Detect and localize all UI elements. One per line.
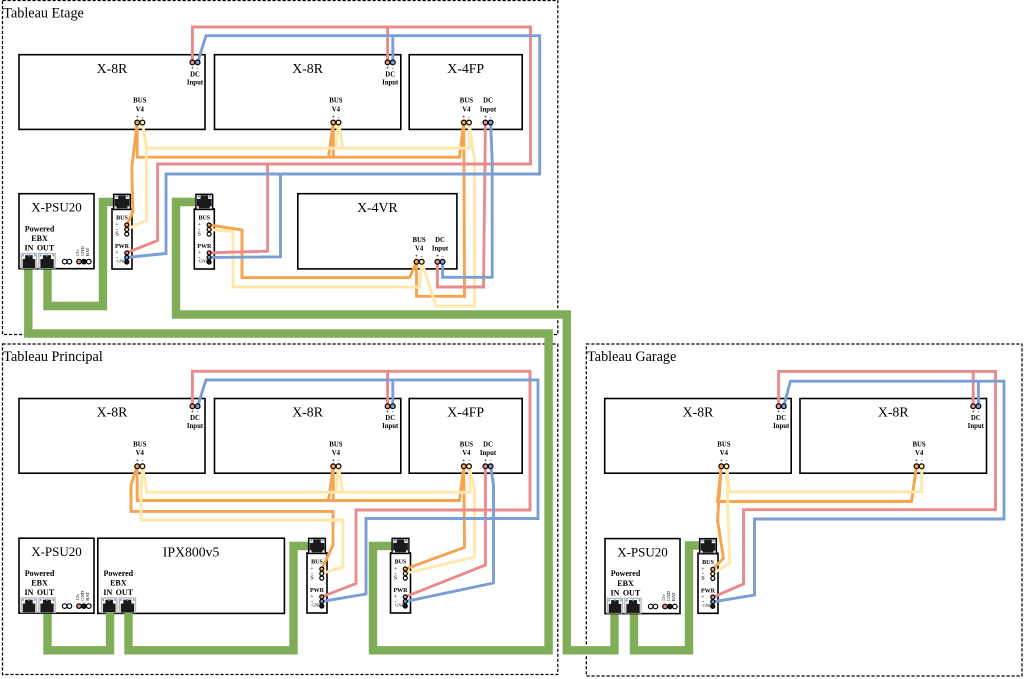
wire GND blue: stub to X-8R#2 Principal DC- bbox=[391, 380, 394, 406]
svg-text:BUS: BUS bbox=[412, 237, 425, 244]
svg-text:+: + bbox=[972, 409, 975, 415]
pins X-8R#2 Principal DC Input ports + - circles bbox=[385, 404, 395, 409]
device X-PSU20 bbox=[19, 538, 94, 613]
wire 12V pink: stub to X-8R#2 Principal DC+ bbox=[386, 371, 389, 406]
svg-text:V4: V4 bbox=[136, 450, 145, 457]
pins X-8R#1 Principal DC Input ports + - circles bbox=[190, 404, 200, 409]
svg-text:X-4FP: X-4FP bbox=[447, 405, 484, 420]
wire 12V pink: Garage module PWR+ riser and top distribution to X-8R DC+ bbox=[713, 371, 996, 597]
svg-text:X-8R: X-8R bbox=[97, 405, 128, 420]
svg-text:BUS: BUS bbox=[311, 560, 323, 566]
wire BUS- yellow: X-8R#1 Principal to module 1 BUS- bbox=[141, 466, 343, 573]
svg-text:V4: V4 bbox=[462, 106, 471, 113]
svg-text:IN: IN bbox=[25, 588, 34, 597]
svg-text:DC: DC bbox=[435, 237, 445, 244]
svg-text:+: + bbox=[462, 458, 465, 464]
wire BUS+ orange: X-8R#1 Principal to module 1 BUS+ bbox=[131, 466, 333, 569]
device X-4VR (Etage) bbox=[298, 194, 457, 269]
svg-text:-: - bbox=[421, 254, 423, 260]
X-8R#2 Etage BUS V4 ports + - bbox=[329, 98, 342, 121]
device X-8R #1 (Principal) bbox=[19, 399, 205, 474]
svg-text:+: + bbox=[386, 409, 389, 415]
EBX coupler module Garage module bbox=[698, 539, 718, 614]
X-8R#1 Etage BUS V4 ports + - bbox=[133, 98, 146, 121]
wire 12V pink: stub to X-8R#2 Etage DC+ bbox=[386, 27, 389, 62]
device X-PSU20 bbox=[605, 539, 680, 614]
svg-text:IPX800v5: IPX800v5 bbox=[163, 544, 220, 559]
wire EBX green: Principal PSU OUT to IPX800v5 IN bbox=[48, 612, 111, 650]
svg-text:X-4FP: X-4FP bbox=[447, 61, 484, 76]
pins X-4FP Principal BUS V4 ports + - circles bbox=[461, 464, 471, 469]
svg-text:OUT: OUT bbox=[116, 588, 134, 597]
X-8R#1 Garage BUS V4 ports + - bbox=[717, 442, 730, 465]
wire BUS+ orange: X-4FP Principal to module 2 BUS+ bbox=[405, 466, 464, 569]
wire BUS- yellow: X-4FP Etage to X-4VR bbox=[422, 123, 475, 307]
svg-text:Input: Input bbox=[187, 79, 204, 86]
wire BUS+ orange: Principal track X-8R#1 / X-8R#2 / X-4FP bbox=[137, 466, 464, 500]
X-8R#1 Garage DC Input ports + - bbox=[773, 409, 790, 430]
pins Garage module BUS +/-/S and PWR +/-/GND circles bbox=[711, 567, 715, 608]
pins X-8R#1 Etage DC Input ports + - circles bbox=[190, 60, 200, 65]
X-8R#2 Garage DC Input ports + - bbox=[968, 409, 985, 430]
svg-text:X-8R: X-8R bbox=[292, 405, 323, 420]
svg-text:+: + bbox=[462, 114, 465, 120]
svg-text:Powered: Powered bbox=[25, 224, 55, 233]
svg-text:+: + bbox=[386, 65, 389, 71]
svg-text:V4: V4 bbox=[136, 106, 145, 113]
pins Principal module 1 BUS +/-/S and PWR +/-/GND circles bbox=[320, 567, 324, 608]
svg-text:DC: DC bbox=[971, 415, 981, 422]
wire BUS- yellow: stub X-8R#2 Principal left leg bbox=[336, 466, 339, 492]
EBX coupler module Principal module 1 bbox=[307, 538, 327, 613]
svg-text:IN: IN bbox=[611, 588, 620, 597]
wire BUS+ orange: stub X-8R#2 Principal left leg bbox=[329, 466, 334, 500]
device X-4FP (Principal) bbox=[409, 399, 522, 474]
pins X-8R#2 Principal BUS V4 ports + - circles bbox=[331, 464, 341, 469]
svg-text:PWR: PWR bbox=[115, 244, 130, 250]
svg-text:BUS: BUS bbox=[702, 560, 714, 566]
svg-text:V4: V4 bbox=[462, 450, 471, 457]
device X-8R #2 (Etage) bbox=[215, 55, 401, 130]
svg-text:BUS: BUS bbox=[395, 560, 407, 566]
svg-text:+: + bbox=[915, 458, 918, 464]
wire 12V pink: stub to X-8R#2 Garage DC+ bbox=[972, 371, 975, 406]
svg-text:DC: DC bbox=[483, 442, 493, 449]
svg-text:V4: V4 bbox=[415, 246, 424, 253]
svg-text:IN: IN bbox=[103, 588, 112, 597]
pins X-4VR BUS V4 ports + - circles bbox=[414, 259, 424, 264]
wire BUS+ orange: X-8R#1 Etage to module 1 BUS+ bbox=[127, 123, 137, 226]
svg-text:BUS: BUS bbox=[912, 442, 925, 449]
svg-text:V4: V4 bbox=[332, 450, 341, 457]
svg-text:+: + bbox=[484, 114, 487, 120]
svg-text:DC: DC bbox=[483, 98, 493, 105]
wire BUS- yellow: Etage track X-8R#1 / X-8R#2 / X-4FP bbox=[142, 123, 470, 149]
svg-text:BUS: BUS bbox=[329, 442, 342, 449]
X-8R#1 Principal DC Input ports + - bbox=[187, 409, 204, 430]
svg-text:+: + bbox=[720, 458, 723, 464]
wire BUS+ orange: X-8R#1 Garage to module BUS+ bbox=[713, 466, 724, 569]
pins X-8R#1 Principal BUS V4 ports + - circles bbox=[135, 464, 145, 469]
device X-8R #2 (Principal) bbox=[215, 399, 401, 474]
svg-text:Powered: Powered bbox=[611, 569, 641, 578]
svg-text:-: - bbox=[392, 409, 394, 415]
svg-text:Input: Input bbox=[432, 246, 449, 253]
X-4VR BUS V4 ports + - bbox=[412, 237, 425, 260]
pins X-8R#2 Garage BUS V4 ports + - circles bbox=[914, 464, 924, 469]
svg-text:-: - bbox=[490, 458, 492, 464]
svg-text:IN: IN bbox=[25, 244, 34, 253]
svg-text:+: + bbox=[136, 114, 139, 120]
svg-text:X-8R: X-8R bbox=[292, 61, 323, 76]
svg-text:-: - bbox=[783, 409, 785, 415]
svg-text:X-PSU20: X-PSU20 bbox=[617, 545, 668, 560]
wire GND blue: stub to X-8R#2 Etage DC- bbox=[391, 36, 394, 63]
wire EBX green: Garage PSU OUT to Garage module bbox=[634, 546, 700, 651]
svg-text:-: - bbox=[392, 65, 394, 71]
svg-text:DC: DC bbox=[385, 71, 395, 78]
wire BUS+ orange: X-4VR to Etage module 2 bbox=[209, 225, 416, 278]
svg-text:BUS: BUS bbox=[329, 98, 342, 105]
svg-text:-: - bbox=[442, 254, 444, 260]
svg-text:S: S bbox=[310, 576, 313, 582]
svg-text:BUS: BUS bbox=[133, 98, 146, 105]
wire BUS- yellow: Principal track X-8R#1 / X-8R#2 / X-4FP bbox=[142, 466, 470, 492]
pins X-8R#1 Garage BUS V4 ports + - circles bbox=[719, 464, 729, 469]
svg-text:X-PSU20: X-PSU20 bbox=[31, 200, 82, 215]
pins X-4FP Etage DC Input ports + - circles bbox=[483, 120, 493, 125]
svg-text:+: + bbox=[191, 65, 194, 71]
pins X-8R#1 Garage DC Input ports + - circles bbox=[776, 404, 786, 409]
svg-text:Input: Input bbox=[480, 106, 497, 113]
svg-text:S: S bbox=[701, 576, 704, 582]
X-8R#2 Principal DC Input ports + - bbox=[382, 409, 399, 430]
device X-8R #1 (Garage) bbox=[605, 399, 792, 474]
svg-text:V4: V4 bbox=[915, 450, 924, 457]
wire GND blue: Principal module 1 PWR- riser and top distribution to X-8R DC- bbox=[198, 380, 538, 602]
svg-text:-: - bbox=[468, 458, 470, 464]
svg-text:X-8R: X-8R bbox=[683, 405, 714, 420]
wire EBX green: Etage PSU IN from Principal module 2 bbox=[28, 269, 548, 651]
pins X-8R#2 Etage DC Input ports + - circles bbox=[385, 60, 395, 65]
pins X-4FP Etage BUS V4 ports + - circles bbox=[461, 120, 471, 125]
svg-text:BUS: BUS bbox=[717, 442, 730, 449]
svg-text:Input: Input bbox=[773, 423, 790, 430]
svg-text:S: S bbox=[394, 576, 397, 582]
pins X-4FP Principal DC Input ports + - circles bbox=[483, 464, 493, 469]
svg-text:V4: V4 bbox=[720, 450, 729, 457]
X-8R#1 Etage DC Input ports + - bbox=[187, 65, 204, 86]
svg-text:BUS: BUS bbox=[460, 442, 473, 449]
svg-text:BUS: BUS bbox=[460, 98, 473, 105]
pins X-8R#1 Etage BUS V4 ports + - circles bbox=[135, 120, 145, 125]
svg-text:X-8R: X-8R bbox=[878, 405, 909, 420]
device X-PSU20 bbox=[19, 194, 94, 269]
pins X-8R#2 Garage DC Input ports + - circles bbox=[971, 404, 981, 409]
EBX coupler module Principal module 2 bbox=[391, 538, 411, 613]
svg-text:-: - bbox=[338, 114, 340, 120]
svg-text:BAT: BAT bbox=[85, 247, 90, 256]
wire GND blue: Garage module PWR- riser and top distribution to X-8R DC- bbox=[713, 381, 1004, 602]
svg-text:V4: V4 bbox=[332, 106, 341, 113]
svg-text:Input: Input bbox=[382, 423, 399, 430]
svg-text:PWR: PWR bbox=[310, 588, 325, 594]
panel section Tableau Etage bbox=[3, 1, 558, 335]
svg-text:OUT: OUT bbox=[37, 244, 55, 253]
X-8R#2 Etage DC Input ports + - bbox=[382, 65, 399, 86]
svg-text:BUS: BUS bbox=[116, 216, 128, 222]
wire BUS- yellow: stub X-8R#2 Principal bbox=[339, 466, 343, 492]
svg-text:+: + bbox=[332, 458, 335, 464]
svg-text:X-PSU20: X-PSU20 bbox=[31, 544, 82, 559]
X-8R#2 Garage BUS V4 ports + - bbox=[912, 442, 925, 465]
EBX coupler module Etage module 1 bbox=[112, 194, 132, 269]
svg-text:-: - bbox=[726, 458, 728, 464]
svg-text:+: + bbox=[415, 254, 418, 260]
wire 12V pink: Principal module 1 PWR+ riser and top distribution to X-8R DC+ bbox=[192, 371, 530, 597]
device IPX800v5 (Principal) bbox=[98, 538, 285, 613]
wire 12V pink: X-4FP Principal DC+ to module 2 PWR+ bbox=[405, 466, 485, 597]
wire 12V pink: drop to Etage module 2 PWR+ bbox=[209, 164, 268, 253]
wire GND blue: stub to X-8R#2 Garage DC- bbox=[977, 381, 980, 406]
svg-text:+: + bbox=[777, 409, 780, 415]
X-4FP Etage BUS V4 ports + - bbox=[460, 98, 473, 121]
svg-text:Input: Input bbox=[968, 423, 985, 430]
wire GND blue: Etage module 1 PWR- riser and top distribution to X-8R DC- bbox=[127, 36, 540, 258]
wire BUS- yellow: stub X-8R#2 Etage left leg bbox=[336, 123, 339, 149]
svg-text:Powered: Powered bbox=[103, 569, 133, 578]
svg-text:-: - bbox=[141, 458, 143, 464]
panel section Tableau Garage bbox=[586, 344, 1022, 676]
svg-text:Tableau Principal: Tableau Principal bbox=[3, 349, 103, 365]
wire BUS- yellow: stub X-8R#2 Etage bbox=[339, 123, 343, 149]
device X-8R #1 (Etage) bbox=[19, 55, 205, 130]
svg-text:-: - bbox=[977, 409, 979, 415]
pins X-4VR DC Input ports + - circles bbox=[435, 259, 445, 264]
svg-text:BUS: BUS bbox=[198, 216, 210, 222]
wire BUS+ orange: X-4FP Etage to X-4VR bbox=[417, 123, 465, 297]
svg-text:BAT: BAT bbox=[671, 592, 676, 601]
device X-8R #2 (Garage) bbox=[800, 399, 987, 474]
svg-text:PWR: PWR bbox=[394, 588, 409, 594]
X-4VR DC Input ports + - bbox=[432, 237, 449, 260]
svg-text:+: + bbox=[191, 409, 194, 415]
wire BUS- yellow: X-8R#1 Etage to module 1 BUS- bbox=[127, 123, 147, 230]
pins Etage module 1 BUS +/-/S and PWR +/-/GND circles bbox=[125, 223, 129, 264]
svg-text:+: + bbox=[332, 114, 335, 120]
wire GND blue: drop to Etage module 2 PWR- bbox=[209, 174, 280, 257]
wire BUS- yellow: X-8R#1 Garage to module BUS- bbox=[713, 466, 730, 574]
svg-text:+: + bbox=[484, 458, 487, 464]
pins X-8R#2 Etage BUS V4 ports + - circles bbox=[331, 120, 341, 125]
svg-text:-: - bbox=[468, 114, 470, 120]
wire GND blue: drop X-4FP Etage DC- to X-4VR DC- bbox=[443, 123, 493, 278]
svg-text:EBX: EBX bbox=[31, 578, 48, 587]
svg-text:Powered: Powered bbox=[25, 569, 55, 578]
svg-text:BUS: BUS bbox=[133, 442, 146, 449]
svg-text:PWR: PWR bbox=[197, 244, 212, 250]
svg-text:-: - bbox=[921, 458, 923, 464]
svg-text:Tableau Garage: Tableau Garage bbox=[587, 349, 676, 365]
svg-text:Input: Input bbox=[187, 423, 204, 430]
wire 12V pink: drop X-4FP Etage DC+ to X-4VR DC+ bbox=[437, 123, 485, 288]
svg-text:X-4VR: X-4VR bbox=[357, 200, 398, 215]
svg-text:BAT: BAT bbox=[85, 592, 90, 601]
svg-text:EBX: EBX bbox=[617, 579, 634, 588]
wire EBX green: Etage module 2 to Garage PSU IN bbox=[176, 202, 615, 650]
X-8R#2 Principal BUS V4 ports + - bbox=[329, 442, 342, 465]
wire EBX green: Etage PSU OUT to Etage module 1 bbox=[48, 202, 114, 306]
X-4FP Principal DC Input ports + - bbox=[480, 442, 497, 465]
svg-text:Input: Input bbox=[382, 79, 399, 86]
svg-text:DC: DC bbox=[190, 415, 200, 422]
svg-text:-: - bbox=[197, 409, 199, 415]
wire EBX green: IPX800v5 OUT to Principal module 1 bbox=[129, 546, 309, 650]
svg-text:-: - bbox=[490, 114, 492, 120]
X-4FP Etage DC Input ports + - bbox=[480, 98, 497, 121]
wire BUS+ orange: Etage track X-8R#1 / X-8R#2 / X-4FP bbox=[137, 123, 464, 158]
svg-text:S: S bbox=[115, 232, 118, 238]
svg-text:EBX: EBX bbox=[110, 578, 127, 587]
wire BUS+ orange: Garage track X-8R#1 / X-8R#2 bbox=[718, 466, 917, 501]
svg-text:-: - bbox=[197, 65, 199, 71]
svg-text:DC: DC bbox=[190, 71, 200, 78]
svg-text:S: S bbox=[198, 232, 201, 238]
wire 12V pink: Etage module 1 PWR+ riser and top distribution to X-8R DC+ bbox=[127, 27, 531, 253]
wire BUS- yellow: X-4FP Principal to module 2 BUS- bbox=[405, 466, 474, 573]
wire BUS+ orange: stub X-8R#2 Etage left leg bbox=[329, 123, 334, 158]
svg-text:EBX: EBX bbox=[31, 234, 48, 243]
wire BUS- yellow: X-4VR to Etage module 2 bbox=[209, 230, 422, 288]
X-8R#1 Principal BUS V4 ports + - bbox=[133, 442, 146, 465]
svg-text:PWR: PWR bbox=[701, 588, 716, 594]
svg-text:X-8R: X-8R bbox=[97, 61, 128, 76]
svg-text:OUT: OUT bbox=[623, 588, 641, 597]
svg-text:-: - bbox=[141, 114, 143, 120]
panel section Tableau Principal bbox=[3, 344, 558, 675]
pins Etage module 2 BUS +/-/S and PWR +/-/GND circles bbox=[207, 223, 211, 264]
EBX coupler module Etage module 2 bbox=[194, 194, 214, 269]
pins Principal module 2 BUS +/-/S and PWR +/-/GND circles bbox=[403, 567, 407, 608]
wire BUS+ orange: stub X-8R#2 Principal bbox=[332, 466, 335, 500]
svg-text:Input: Input bbox=[480, 450, 497, 457]
svg-text:-: - bbox=[338, 458, 340, 464]
svg-text:+: + bbox=[136, 458, 139, 464]
svg-text:OUT: OUT bbox=[37, 588, 55, 597]
X-4FP Principal BUS V4 ports + - bbox=[460, 442, 473, 465]
wire BUS+ orange: stub X-8R#2 Etage bbox=[332, 123, 335, 158]
device X-4FP (Etage) bbox=[409, 55, 522, 130]
svg-text:DC: DC bbox=[385, 415, 395, 422]
svg-text:DC: DC bbox=[776, 415, 786, 422]
svg-text:Tableau Etage: Tableau Etage bbox=[3, 5, 84, 21]
svg-text:+: + bbox=[436, 254, 439, 260]
wire GND blue: X-4FP Principal DC- to module 2 PWR- bbox=[406, 466, 494, 601]
wire BUS- yellow: Garage track X-8R#1 / X-8R#2 bbox=[727, 466, 922, 492]
